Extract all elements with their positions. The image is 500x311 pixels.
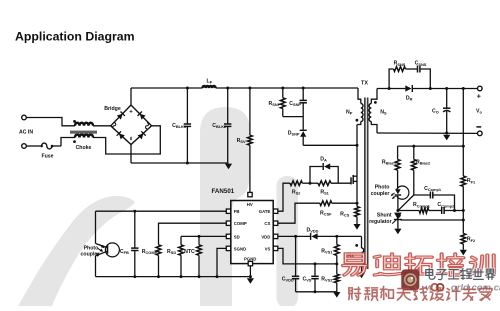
svg-text:AC IN: AC IN (19, 130, 33, 136)
svg-text:+: + (477, 92, 482, 101)
svg-text:CBLK2: CBLK2 (212, 123, 227, 129)
svg-text:Photo: Photo (375, 184, 390, 190)
svg-text:GATE: GATE (259, 209, 271, 214)
svg-text:CSNP: CSNP (289, 101, 301, 107)
svg-text:Vo: Vo (476, 109, 482, 115)
svg-text:RCSF: RCSF (320, 211, 332, 217)
svg-text:NS: NS (380, 110, 387, 116)
svg-text:RCS: RCS (340, 212, 350, 218)
svg-text:CS: CS (264, 221, 270, 226)
svg-text:RSD: RSD (167, 249, 176, 255)
svg-text:VDD: VDD (261, 234, 270, 239)
svg-text:RS2: RS2 (292, 190, 301, 196)
svg-text:RCOMP: RCOMP (142, 249, 158, 255)
svg-text:Fuse: Fuse (41, 154, 53, 160)
svg-text:SD: SD (234, 234, 240, 239)
svg-text:Bridge: Bridge (104, 106, 121, 112)
svg-text:CO: CO (432, 109, 439, 115)
svg-text:Shunt: Shunt (377, 213, 392, 219)
svg-text:CVS: CVS (302, 277, 311, 283)
svg-text:regulator: regulator (369, 219, 391, 225)
svg-text:DR: DR (406, 96, 413, 102)
svg-text:coupler: coupler (81, 252, 100, 258)
svg-text:HV: HV (247, 202, 253, 207)
svg-text:DA: DA (320, 157, 327, 163)
svg-text:RBias2: RBias2 (416, 160, 431, 166)
svg-text:PGND: PGND (244, 257, 256, 262)
svg-text:RF1: RF1 (467, 178, 476, 184)
svg-text:+: + (129, 109, 133, 115)
svg-text:Photo: Photo (84, 246, 99, 252)
svg-text:CSNS: CSNS (415, 61, 427, 67)
svg-text:Application Diagram: Application Diagram (15, 30, 135, 44)
svg-text:RSNP: RSNP (269, 101, 281, 107)
svg-text:RS1: RS1 (320, 190, 329, 196)
svg-text:RComp1: RComp1 (413, 202, 431, 208)
svg-text:FB: FB (234, 209, 240, 214)
svg-text:LF: LF (207, 78, 213, 84)
svg-text:CFB: CFB (120, 249, 129, 255)
svg-text:CBLK1: CBLK1 (172, 123, 187, 129)
svg-text:RF2: RF2 (467, 237, 476, 243)
svg-text:RBias1: RBias1 (382, 160, 397, 166)
svg-text:SGND: SGND (234, 246, 246, 251)
svg-text:RSV: RSV (237, 138, 246, 144)
svg-text:coupler: coupler (371, 191, 390, 197)
svg-text:RVS2: RVS2 (321, 277, 333, 283)
svg-text:RVS1: RVS1 (321, 248, 333, 254)
svg-text:NTC: NTC (184, 249, 195, 255)
svg-text:FAN501: FAN501 (212, 188, 235, 195)
svg-text:DSNP: DSNP (288, 130, 300, 136)
svg-text:COMP: COMP (234, 221, 247, 226)
svg-text:DVDD: DVDD (307, 227, 319, 233)
svg-text:CVDD: CVDD (282, 277, 294, 283)
svg-text:VS: VS (265, 246, 271, 251)
svg-text:NP: NP (346, 110, 353, 116)
svg-text:RSNS: RSNS (394, 61, 406, 67)
svg-text:CComp2: CComp2 (437, 202, 455, 208)
svg-text:Choke: Choke (76, 145, 92, 151)
svg-text:CComp1: CComp1 (424, 186, 442, 192)
svg-text:TX: TX (361, 81, 368, 87)
